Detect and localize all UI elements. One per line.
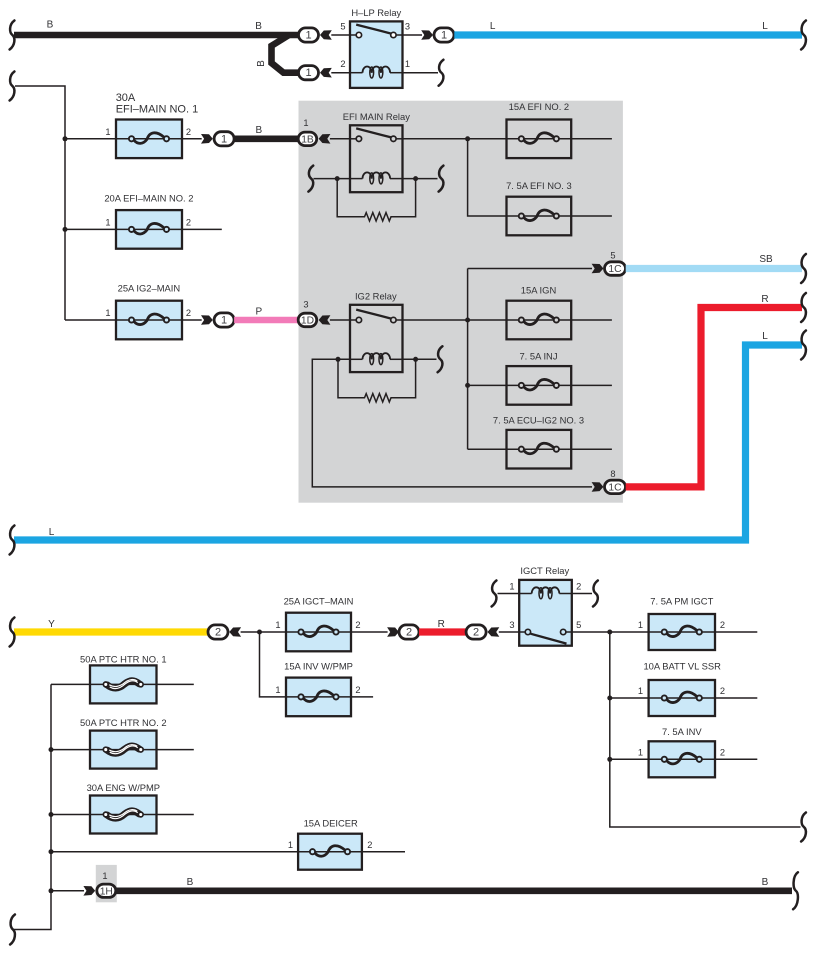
arrow into connector 1C pin 5 <box>592 264 604 274</box>
wire IGCT pin 5 output <box>572 631 649 633</box>
svg-text:5: 5 <box>610 250 615 260</box>
svg-text:1: 1 <box>105 308 110 318</box>
svg-text:1: 1 <box>441 30 447 42</box>
svg-text:2: 2 <box>473 627 479 639</box>
svg-text:2: 2 <box>720 686 725 696</box>
arrow into connector 1 (L side) <box>421 30 433 40</box>
svg-text:15A EFI NO. 2: 15A EFI NO. 2 <box>509 101 569 112</box>
wire fuse 30A output <box>182 138 202 140</box>
svg-text:L: L <box>762 21 768 32</box>
svg-text:2: 2 <box>186 127 191 137</box>
svg-text:25A IG2–MAIN: 25A IG2–MAIN <box>118 283 181 294</box>
svg-text:15A IGN: 15A IGN <box>521 285 556 296</box>
wire fuse 25A output <box>182 319 202 321</box>
svg-text:7. 5A EFI NO. 3: 7. 5A EFI NO. 3 <box>506 180 572 191</box>
wire 1D to IG2 relay pin 3 <box>330 319 350 321</box>
wire EFI switch output to fuses <box>403 138 507 140</box>
wire fuse PM IGCT output stub <box>715 631 757 633</box>
wire B thick (bottom) <box>116 887 792 894</box>
svg-text:3: 3 <box>303 300 308 310</box>
wire EFI coil left with break <box>308 166 313 192</box>
svg-text:2: 2 <box>576 582 581 592</box>
wire break right of bottom B wire <box>793 872 798 909</box>
coil IGCT relay <box>532 587 541 593</box>
svg-text:2: 2 <box>186 308 191 318</box>
wire to fuse DEICER <box>51 851 298 853</box>
svg-text:8: 8 <box>610 469 615 479</box>
svg-text:1: 1 <box>305 67 311 79</box>
arrow into connector 1 (30A output) <box>201 134 213 144</box>
connector 1 (H-LP pin 5 side) <box>299 28 319 42</box>
arrow into connector 1 (25A output) <box>201 315 213 325</box>
wire L (blue) top right <box>454 31 802 38</box>
wire 1B to EFI MAIN relay pin <box>330 138 350 140</box>
fuse 30A ENG W/PMP <box>90 796 157 834</box>
svg-text:B: B <box>47 20 54 31</box>
svg-text:50A PTC HTR NO. 2: 50A PTC HTR NO. 2 <box>80 717 166 728</box>
wire EFI coil right with break <box>403 178 438 180</box>
wire to fuse IG2-MAIN <box>65 319 116 321</box>
svg-text:EFI MAIN Relay: EFI MAIN Relay <box>343 111 411 122</box>
svg-text:1: 1 <box>275 685 280 695</box>
wire L (blue) lower loop <box>14 345 802 540</box>
svg-text:B: B <box>187 877 194 888</box>
wire fuse INJ output stub <box>571 384 612 386</box>
wire branch to fuse INV W/PMP <box>260 632 287 697</box>
svg-text:1: 1 <box>509 582 514 592</box>
arrow into connector 1D <box>319 315 331 325</box>
svg-text:2: 2 <box>355 620 360 630</box>
wire break right of L wire <box>801 21 806 50</box>
svg-text:50A PTC HTR NO. 1: 50A PTC HTR NO. 1 <box>80 654 166 665</box>
svg-text:1B: 1B <box>301 134 314 145</box>
switch contacts EFI MAIN relay <box>356 136 361 141</box>
svg-text:L: L <box>762 331 768 342</box>
wire B branch to relay coil <box>272 35 300 73</box>
wire riser to 1C pin 5 and IG2 fuses <box>467 269 469 450</box>
relay EFI MAIN Relay <box>343 111 411 192</box>
wire break right of bottom stub <box>801 813 806 842</box>
wire break bottom left trunk2 <box>10 915 15 945</box>
switch contacts H-LP pins 5-3 <box>356 32 361 37</box>
wire break left of B wire <box>10 21 15 50</box>
wire fuse INV output stub <box>715 758 757 760</box>
svg-text:H–LP Relay: H–LP Relay <box>351 7 401 18</box>
svg-text:1: 1 <box>221 133 227 145</box>
svg-text:SB: SB <box>759 254 773 265</box>
arrow into connector 1H <box>83 886 95 896</box>
wire to connector 1C pin 5 <box>468 268 592 270</box>
connector 1H with highlight <box>96 865 117 902</box>
fuse 7.5A INJ <box>507 366 572 405</box>
wire to fuse INJ <box>468 384 507 386</box>
wire fuse IGCT-MAIN output <box>351 631 388 633</box>
wire fuse ECU-IG2 output stub <box>571 448 612 450</box>
wire to H-LP relay pin 5 <box>331 34 350 36</box>
wire SB (light blue) <box>626 265 802 272</box>
wire fuse IGN output stub <box>571 319 612 321</box>
svg-text:10A BATT VL SSR: 10A BATT VL SSR <box>643 660 721 671</box>
svg-text:5: 5 <box>576 620 581 630</box>
connector 1 (L wire side) <box>434 28 454 42</box>
switch contacts IG2 relay <box>356 317 361 322</box>
wire R (red) from 1C pin 8 <box>626 308 802 487</box>
svg-text:1C: 1C <box>608 482 622 493</box>
wire break right of SB wire <box>801 254 806 283</box>
wire to fuse 7.5A INV <box>610 758 649 760</box>
svg-text:2: 2 <box>355 685 360 695</box>
connector 2 (Y wire) <box>208 625 228 639</box>
wire IGCT coil pin 1 with break <box>498 593 520 595</box>
svg-text:30A: 30A <box>116 92 136 104</box>
svg-text:2: 2 <box>406 627 412 639</box>
arrow into connector 1 coil side <box>320 68 332 78</box>
wire break right of L wire <box>801 331 806 360</box>
wire to fuse EFI-MAIN NO.2 <box>65 228 116 230</box>
svg-text:B: B <box>256 60 267 67</box>
wire P (pink) to junction block <box>234 317 299 324</box>
svg-text:2: 2 <box>340 59 345 69</box>
coil IG2 relay <box>350 358 363 360</box>
svg-text:3: 3 <box>405 21 410 31</box>
svg-text:1: 1 <box>305 30 311 42</box>
wire fuse PTC HTR NO.2 output stub <box>157 749 194 751</box>
fuse 25A IG2-MAIN <box>116 301 182 340</box>
svg-text:2: 2 <box>367 840 372 850</box>
wire fuse INV W/PMP output stub <box>351 696 373 698</box>
connector 2 (red wire right) <box>466 625 486 639</box>
connector 1 (25A output) <box>214 313 234 327</box>
coil H-LP pins 2-1 <box>350 72 363 74</box>
svg-text:7. 5A ECU–IG2 NO. 3: 7. 5A ECU–IG2 NO. 3 <box>493 414 584 425</box>
resistor across IG2 relay coil <box>338 359 416 402</box>
connector 2 (red wire left) <box>399 625 419 639</box>
relay H-LP Relay <box>340 7 410 88</box>
svg-text:30A ENG W/PMP: 30A ENG W/PMP <box>87 782 160 793</box>
wire to fuse ENG W/PMP <box>51 814 90 816</box>
wire IG2 coil left to 1C pin 8 <box>312 359 592 487</box>
svg-text:1: 1 <box>221 315 227 327</box>
wire B thick to junction block <box>234 136 299 143</box>
svg-text:1: 1 <box>638 747 643 757</box>
fuse 7.5A ECU-IG2 NO.3 <box>507 430 572 469</box>
svg-text:1: 1 <box>275 620 280 630</box>
fuse 7.5A PM IGCT <box>649 614 715 650</box>
fuse 25A IGCT-MAIN <box>286 613 351 652</box>
svg-text:1H: 1H <box>100 886 113 897</box>
arrow into connector 1B <box>319 134 331 144</box>
svg-text:3: 3 <box>509 620 514 630</box>
wire to fuse IGCT-MAIN <box>241 631 286 633</box>
svg-text:IG2 Relay: IG2 Relay <box>355 291 397 302</box>
connector 1 (H-LP pin 2 side) <box>299 66 319 80</box>
wire IG2 coil right with break <box>403 358 437 360</box>
wire fuse PTC HTR NO.1 output stub <box>157 683 194 685</box>
svg-text:7. 5A INJ: 7. 5A INJ <box>519 350 557 361</box>
arrow into connector 1C pin 8 <box>592 482 604 492</box>
wire trunk2 vertical <box>14 684 51 929</box>
svg-text:1: 1 <box>288 840 293 850</box>
fuse 50A PTC HTR NO.2 <box>90 731 157 769</box>
resistor across EFI MAIN relay coil <box>337 179 415 221</box>
svg-text:1: 1 <box>638 620 643 630</box>
arrow into connector 2 (IGCT relay side) <box>488 627 500 637</box>
wire riser to fuse EFI NO.3 <box>468 139 507 216</box>
wire break left of L wire <box>10 526 15 555</box>
arrow into connector 2 (IGCT-MAIN out) <box>387 627 399 637</box>
wire H-LP pin 1 stub <box>403 72 439 74</box>
wire IG2 switch output to fuses <box>403 319 507 321</box>
wire break right of R wire <box>801 293 806 322</box>
wire break at H-LP pin 1 <box>439 60 444 86</box>
svg-text:R: R <box>438 619 445 630</box>
svg-text:20A EFI–MAIN NO. 2: 20A EFI–MAIN NO. 2 <box>104 192 193 203</box>
svg-text:2: 2 <box>186 217 191 227</box>
wire to fuse ECU-IG2 NO.3 <box>468 448 507 450</box>
svg-text:7. 5A PM IGCT: 7. 5A PM IGCT <box>650 596 713 607</box>
svg-text:5: 5 <box>340 21 345 31</box>
arrow into connector 1 <box>320 30 332 40</box>
wire fuse DEICER output stub <box>362 851 405 853</box>
svg-text:2: 2 <box>215 627 221 639</box>
wire B thick battery feed (top) <box>14 32 300 39</box>
fuse 20A EFI-MAIN NO.2 <box>116 210 182 249</box>
svg-text:2: 2 <box>720 747 725 757</box>
svg-text:B: B <box>762 877 769 888</box>
wire H-LP pin 3 to connector <box>403 34 423 36</box>
svg-text:1D: 1D <box>301 316 314 327</box>
wire to fuse PTC HTR NO.2 <box>51 749 90 751</box>
svg-text:1: 1 <box>105 127 110 137</box>
wire Y (yellow) <box>14 628 208 635</box>
svg-text:L: L <box>49 527 55 538</box>
coil EFI MAIN relay <box>350 178 363 180</box>
svg-text:1: 1 <box>405 59 410 69</box>
svg-text:B: B <box>255 125 262 136</box>
wire to fuse EFI-MAIN NO.1 <box>65 138 116 140</box>
svg-text:EFI–MAIN NO. 1: EFI–MAIN NO. 1 <box>116 103 199 115</box>
svg-text:1: 1 <box>105 217 110 227</box>
svg-text:L: L <box>490 21 496 32</box>
fuse 30A EFI-MAIN NO.1 <box>116 120 182 159</box>
svg-text:IGCT Relay: IGCT Relay <box>520 565 569 576</box>
wire to IGCT relay pin 3 <box>499 631 519 633</box>
arrow into connector 2 <box>229 627 241 637</box>
svg-text:P: P <box>255 307 262 318</box>
wire fuse ENG W/PMP output stub <box>157 814 194 816</box>
wire fuse EFI NO.3 output stub <box>571 215 612 217</box>
wire trunk from battery (left) <box>10 72 15 101</box>
wire riser to INV fuses and output stub <box>610 632 801 827</box>
svg-text:Y: Y <box>48 619 55 630</box>
svg-text:1: 1 <box>102 871 107 881</box>
fuse 7.5A INV <box>649 741 715 777</box>
switch contacts IGCT relay <box>519 631 525 633</box>
fuse 50A PTC HTR NO.1 <box>90 665 157 703</box>
svg-text:B: B <box>255 21 262 32</box>
wire fuse BATT VL SSR output stub <box>715 697 757 699</box>
svg-text:1: 1 <box>303 118 308 128</box>
wire IGCT coil pin 2 with break <box>572 593 592 595</box>
svg-text:1: 1 <box>638 686 643 696</box>
relay IGCT Relay <box>509 565 581 646</box>
fuse 15A INV W/PMP <box>286 678 351 717</box>
relay IG2 Relay <box>350 291 403 372</box>
svg-text:7. 5A INV: 7. 5A INV <box>662 726 702 737</box>
wire fuse 20A output stub <box>182 228 222 230</box>
svg-text:1C: 1C <box>608 264 622 275</box>
fuse 15A EFI NO.2 <box>507 120 572 159</box>
wire break left of Y wire <box>10 618 15 647</box>
wire to connector 1H <box>51 890 84 892</box>
svg-text:15A INV W/PMP: 15A INV W/PMP <box>284 661 353 672</box>
fuse 7.5A EFI NO.3 <box>507 197 572 236</box>
svg-text:15A DEICER: 15A DEICER <box>304 817 358 828</box>
svg-text:2: 2 <box>720 620 725 630</box>
fuse 15A DEICER <box>298 834 362 870</box>
wire fuse EFI NO.2 output stub <box>571 138 612 140</box>
wire to fuse BATT VL SSR <box>610 697 649 699</box>
wire to H-LP relay pin 2 <box>331 72 350 74</box>
svg-text:R: R <box>761 294 768 305</box>
fuse 15A IGN <box>507 301 572 340</box>
fuse 10A BATT VL SSR <box>649 680 715 716</box>
junction block (gray box) <box>299 101 623 503</box>
svg-text:25A IGCT–MAIN: 25A IGCT–MAIN <box>284 595 354 606</box>
connector 1 (30A output) <box>214 132 234 146</box>
wire to fuse PTC HTR NO.1 <box>51 683 90 685</box>
wire R (red) short link <box>419 628 467 635</box>
